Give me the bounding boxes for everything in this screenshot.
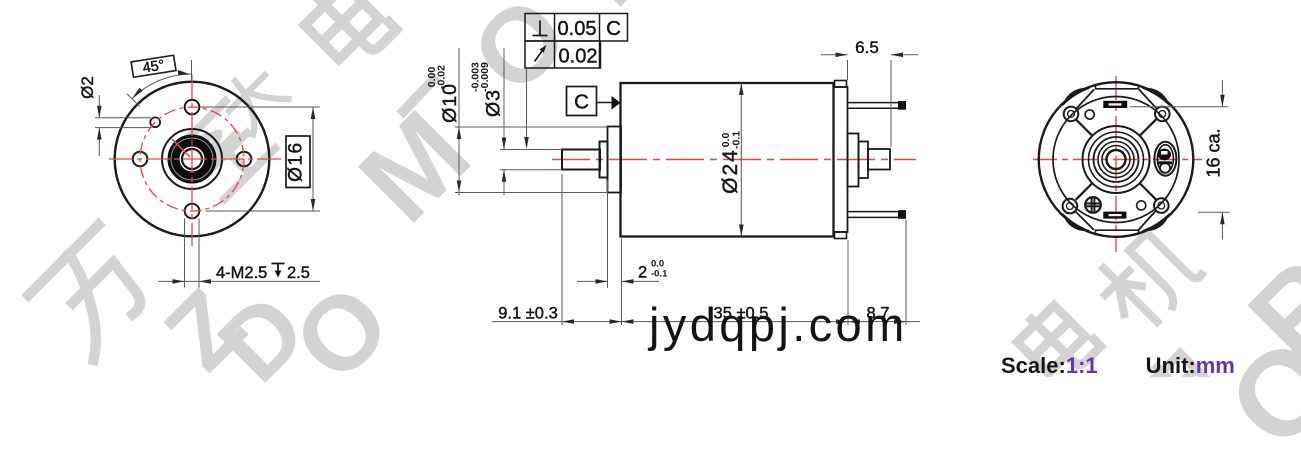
svg-text:-0.009: -0.009	[479, 62, 491, 92]
watermark 机	[1091, 222, 1203, 334]
depth symbol	[272, 264, 285, 273]
svg-text:Ø2: Ø2	[78, 76, 97, 99]
hub ring r18	[1098, 142, 1134, 178]
svg-text:C: C	[574, 91, 589, 114]
4-M2.5 extension lines	[158, 219, 320, 288]
svg-text:9.1 ±0.3: 9.1 ±0.3	[498, 305, 558, 323]
svg-text:0.02: 0.02	[559, 46, 598, 68]
small hole top	[1085, 110, 1094, 119]
front bearing boss	[608, 127, 622, 193]
small hole bottom	[1137, 201, 1146, 210]
dimension diam24	[740, 83, 742, 237]
rear step 1	[848, 134, 859, 187]
rear shaft stub	[868, 149, 890, 170]
svg-text:C: C	[606, 17, 621, 40]
terminal bar bottom	[1103, 212, 1126, 219]
rear view centerline horizontal	[1033, 159, 1202, 161]
mounting hole right	[237, 152, 252, 167]
bearing ring highlight	[171, 138, 213, 180]
rear step 2	[859, 142, 869, 179]
dimension diam10	[455, 48, 608, 196]
dimension 6.5	[821, 55, 918, 147]
bearing dark ring	[174, 141, 211, 178]
watermark 电	[300, 0, 396, 73]
dimension diam 2 arrows	[97, 106, 102, 140]
watermark 至	[176, 100, 275, 199]
terminal top lines	[848, 102, 901, 104]
dimension diam3	[500, 48, 562, 196]
ear crescent top-left	[1063, 88, 1091, 106]
shaft hole circle	[182, 149, 202, 169]
svg-text:-0.1: -0.1	[731, 131, 743, 149]
rear view centerline vertical	[1115, 76, 1117, 252]
mounting hole bottom	[185, 204, 200, 219]
watermark 万	[29, 225, 164, 360]
mounting hole top	[185, 100, 200, 115]
bottom terminal pocket	[1096, 230, 1139, 234]
screw boss top-left	[1064, 107, 1079, 122]
svg-text:4-M2.5: 4-M2.5	[216, 264, 267, 282]
dimension 16ca extension lines	[1130, 80, 1230, 240]
watermark layer	[148, 273, 262, 387]
hub shaft hole	[1107, 150, 1126, 169]
cap tab top	[835, 81, 847, 88]
terminal top tip	[898, 101, 906, 110]
screw boss top-right	[1155, 107, 1170, 122]
screw boss bottom-left	[1063, 199, 1078, 214]
middle centerline	[552, 159, 916, 161]
svg-text:-0.02: -0.02	[436, 65, 448, 89]
phillips screw	[1085, 197, 1101, 213]
hub ring r14	[1102, 146, 1130, 174]
grommet blob	[1158, 149, 1171, 161]
spokes	[1140, 183, 1157, 200]
perpendicularity symbol	[533, 21, 548, 36]
hub ring r22	[1094, 137, 1139, 182]
grommet outer	[1154, 142, 1176, 176]
FCF leader	[526, 68, 528, 147]
45 deg arc arrows	[132, 70, 190, 99]
hub outer circle	[162, 129, 222, 189]
front view centerline horizontal	[109, 158, 283, 160]
diam16 label box	[286, 136, 310, 188]
watermark stroke piece	[400, 76, 437, 115]
svg-text:Ø3: Ø3	[483, 89, 505, 117]
datum C box	[567, 87, 597, 116]
feature control frame	[525, 14, 628, 69]
svg-text:16 ca.: 16 ca.	[1204, 128, 1224, 177]
svg-text:2: 2	[638, 264, 647, 282]
grommet inner	[1157, 145, 1173, 173]
dimension diam16 extension lines	[200, 107, 320, 211]
svg-text:-0.1: -0.1	[651, 269, 668, 280]
watermark 电 2	[1013, 298, 1101, 386]
terminal bottom tip	[898, 210, 906, 219]
shaft collar	[600, 142, 608, 178]
datum leader	[597, 102, 614, 104]
dimension diam16 arrows	[311, 107, 316, 211]
45 deg extension tick (diagonal)	[127, 94, 140, 107]
dimension diam 2 extension lines	[95, 95, 152, 156]
terminal bar top	[1103, 101, 1127, 108]
corner brace lines	[1075, 90, 1158, 231]
screw boss bottom-right	[1154, 198, 1169, 213]
motor body	[621, 83, 834, 237]
runout symbol	[535, 49, 544, 62]
hub ring r33	[1083, 126, 1150, 193]
grommet bottom circle	[1160, 163, 1170, 173]
website text	[649, 297, 908, 352]
front view centerline vertical	[191, 75, 193, 246]
bottom dimension chain	[492, 174, 920, 325]
shaft	[562, 150, 600, 170]
svg-text:0.05: 0.05	[558, 18, 597, 40]
watermark 电 3	[1139, 346, 1227, 434]
ear crescent bottom-right	[1142, 213, 1170, 231]
cap tab bottom	[835, 232, 847, 239]
ear crescent top-right	[1142, 88, 1170, 106]
hub ring r27	[1089, 132, 1144, 187]
front view outer circle	[115, 82, 270, 237]
datum triangle	[612, 96, 621, 110]
svg-text:6.5: 6.5	[855, 38, 879, 57]
watermark 大	[217, 63, 288, 134]
ear crescent bottom-left	[1063, 213, 1091, 231]
top terminal pocket	[1096, 85, 1139, 89]
4-M2.5 arrows	[173, 279, 212, 284]
rear outer circle	[1039, 82, 1194, 237]
45 deg extension tick (top vertical)	[191, 60, 193, 82]
scale/unit	[1001, 353, 1235, 379]
svg-text:45°: 45°	[142, 57, 166, 76]
thread indicator red diagonal	[172, 139, 190, 157]
svg-text:2.5: 2.5	[287, 264, 310, 282]
dimension 2 (boss)	[577, 180, 659, 325]
rear cap circle	[1053, 97, 1179, 223]
svg-text:Ø24: Ø24	[719, 148, 742, 194]
small hole (diam 2) at 135 deg	[150, 117, 160, 127]
mounting hole left	[133, 152, 148, 167]
rear end cap	[834, 87, 848, 232]
svg-text:Ø16: Ø16	[286, 141, 307, 181]
terminal bottom lines	[848, 211, 901, 213]
45 deg dimension arc	[132, 74, 192, 99]
45 deg label box	[131, 55, 176, 78]
bolt circle (red dashed)	[140, 107, 244, 211]
